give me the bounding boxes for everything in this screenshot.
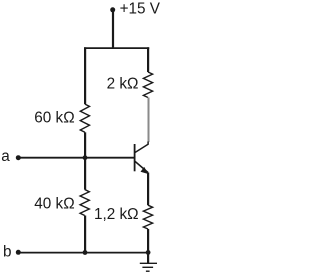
wire 1.2k to bottom rail: [147, 229, 149, 253]
transistor Q1 emitter arrowhead: [141, 167, 149, 174]
svg-text:60 kΩ: 60 kΩ: [34, 110, 74, 127]
node left bottom junction: [83, 250, 88, 255]
wire top rail: [84, 47, 149, 49]
resistor R3 2k: [143, 72, 152, 98]
wire bottom rail: [18, 252, 148, 254]
resistor R4 1.2k: [143, 205, 152, 229]
wire terminal a to base: [18, 157, 134, 159]
wire 40k to bottom rail: [84, 216, 86, 253]
wire 2k to collector (thin gray): [148, 98, 150, 143]
wire emitter to 1.2k: [147, 173, 149, 206]
svg-text:+15 V: +15 V: [120, 0, 161, 17]
node base junction: [83, 155, 88, 160]
transistor Q1 base bar: [134, 144, 136, 171]
wire supply to top rail: [112, 10, 114, 49]
wire left column top: [84, 47, 86, 104]
svg-text:a: a: [1, 148, 10, 165]
terminal b dot: [16, 250, 21, 255]
wire 60k to 40k: [84, 132, 86, 189]
svg-text:b: b: [3, 243, 12, 260]
terminal a dot: [16, 155, 21, 160]
svg-text:2 kΩ: 2 kΩ: [107, 75, 139, 92]
supply node dot: [110, 7, 115, 12]
wire right column top: [147, 47, 149, 72]
resistor R1 60k: [80, 104, 89, 132]
ground: [140, 253, 157, 272]
svg-text:1,2 kΩ: 1,2 kΩ: [94, 206, 139, 223]
svg-text:40 kΩ: 40 kΩ: [34, 196, 74, 213]
node right bottom junction: [146, 250, 151, 255]
transistor Q1 collector: [135, 142, 149, 153]
resistor R2 40k: [80, 190, 89, 216]
transistor Q1 emitter: [135, 161, 148, 173]
